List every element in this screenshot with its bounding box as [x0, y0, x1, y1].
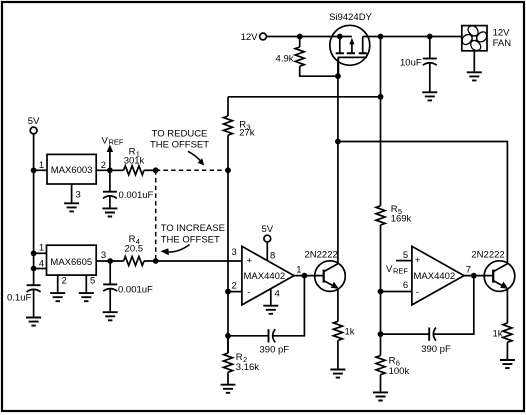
- wire MAX6605 pin1: [34, 243, 47, 254]
- svg-text:MAX4402: MAX4402: [414, 271, 456, 282]
- svg-text:1: 1: [39, 160, 44, 171]
- junction output node op-amp1: [302, 273, 308, 279]
- svg-text:12V: 12V: [493, 27, 511, 38]
- wire Q1 collector to gate line: [337, 58, 339, 264]
- ground 10uF: [422, 92, 437, 100]
- wire 12V to MOSFET source: [266, 36, 352, 38]
- junction MAX6605 pin3 node: [107, 258, 113, 264]
- wire cap to ground: [109, 289, 111, 312]
- wire Q2 emitter to 1k: [506, 288, 508, 323]
- wire drain node down to R5 rail: [380, 37, 382, 206]
- junction 12V / 4.9k: [297, 34, 303, 40]
- resistor R5 169k: [376, 204, 412, 225]
- resistor R2 3.16k: [224, 336, 260, 373]
- svg-text:MAX6003: MAX6003: [51, 165, 93, 176]
- svg-text:THE OFFSET: THE OFFSET: [150, 139, 209, 150]
- wire R2 to ground: [227, 372, 229, 385]
- annotation TO INCREASE THE OFFSET: [161, 223, 225, 255]
- wire R1 to offset node: [144, 169, 156, 171]
- ground R6: [373, 392, 388, 400]
- wire op-amp1 output to Q1 base: [294, 275, 324, 277]
- junction offset node A: [153, 167, 159, 173]
- svg-text:4: 4: [39, 259, 44, 270]
- wire op-amp1 pin4 to ground: [270, 289, 272, 306]
- junction inverting node / pin2: [225, 289, 231, 295]
- junction pin6 node: [378, 289, 384, 295]
- node 5V terminal: [28, 116, 40, 134]
- svg-text:4.9k: 4.9k: [276, 54, 294, 65]
- capacitor 0.1uF: [7, 285, 41, 303]
- wire feedback node to C 390pF: [228, 335, 269, 337]
- wire MAX6605 pin3 to R4: [96, 250, 123, 261]
- junction drain / top rail y97: [378, 94, 384, 100]
- resistor 1k (left): [333, 321, 354, 340]
- svg-text:1: 1: [39, 243, 44, 254]
- svg-text:3: 3: [232, 247, 237, 258]
- svg-text:V: V: [102, 135, 109, 146]
- IC MAX6605: [47, 245, 97, 275]
- capacitor 390 pF (right): [421, 328, 451, 356]
- svg-text:TO INCREASE: TO INCREASE: [161, 223, 225, 234]
- svg-text:3: 3: [101, 250, 106, 261]
- svg-text:2: 2: [101, 160, 106, 171]
- svg-text:20.5: 20.5: [125, 243, 144, 254]
- wire MAX6605 pin5 to ground: [86, 275, 95, 293]
- junction feedback node: [225, 333, 231, 339]
- wire 1k to ground: [506, 342, 508, 360]
- wire feedback node 2 to C 390pF: [381, 333, 430, 335]
- wire 4.9k to gate: [300, 66, 338, 76]
- junction drain node: [378, 34, 384, 40]
- svg-text:2: 2: [232, 281, 237, 292]
- wire R5 to pin6 node: [380, 225, 382, 292]
- ground R2: [221, 385, 236, 393]
- wire MAX6605 pin2 to ground: [58, 275, 67, 293]
- svg-text:FAN: FAN: [493, 38, 512, 49]
- svg-text:TO REDUCE: TO REDUCE: [152, 129, 208, 140]
- junction gate / 4.9k: [335, 73, 341, 79]
- svg-text:12V: 12V: [241, 32, 259, 43]
- junction feedback node 2: [378, 331, 384, 337]
- wire feedback node 2 to R6: [380, 334, 382, 355]
- wire 5V rail vertical: [33, 134, 35, 285]
- svg-text:REF: REF: [393, 267, 408, 276]
- node 12V terminal: [241, 32, 267, 43]
- svg-text:-: -: [247, 287, 250, 298]
- ground fan: [467, 72, 482, 80]
- wire R4 to op-amp pin3: [144, 260, 242, 262]
- transistor Q1 2N2222: [305, 249, 346, 291]
- resistor R6 100k: [376, 356, 409, 377]
- svg-text:1k: 1k: [345, 327, 355, 338]
- wire 0.1uF to ground: [33, 290, 35, 317]
- wire MAX6003 pin1: [34, 160, 47, 171]
- ground 1k (left): [330, 370, 345, 378]
- transistor U2 Si9424DY P-MOSFET: [329, 12, 372, 76]
- svg-text:5V: 5V: [261, 224, 273, 235]
- svg-text:100k: 100k: [389, 366, 410, 377]
- svg-text:Si9424DY: Si9424DY: [329, 12, 372, 23]
- junction node VREF: [107, 167, 113, 173]
- svg-text:10uF: 10uF: [400, 58, 422, 69]
- svg-text:4: 4: [275, 289, 280, 300]
- node VREF input op-amp2 pin5: [386, 261, 412, 276]
- wire MAX6003 pin3 to ground: [72, 184, 81, 203]
- capacitor 10uF: [400, 37, 437, 69]
- wire op-amp2 pin6: [381, 291, 412, 293]
- ground 1k (right): [500, 360, 515, 368]
- fan 12V FAN: [462, 26, 511, 51]
- svg-text:301k: 301k: [124, 156, 145, 167]
- junction dashed / R3 line: [225, 167, 231, 173]
- wire R6 to ground: [380, 375, 382, 393]
- wire MAX6003 pin2 to R1: [96, 160, 123, 171]
- svg-text:2N2222: 2N2222: [305, 249, 338, 260]
- svg-text:390 pF: 390 pF: [260, 345, 290, 356]
- junction 5V rail / MAX6605 pin4: [31, 266, 37, 272]
- svg-text:MAX6605: MAX6605: [50, 257, 92, 268]
- transistor Q2 2N2222: [471, 249, 514, 291]
- wire fan to ground: [473, 51, 475, 73]
- ground MAX6003 pin3: [64, 203, 79, 211]
- wire 1k to ground: [337, 341, 339, 370]
- wire MAX6605 pin4: [34, 259, 47, 270]
- wire top rail y97 (R3 to drain node): [228, 96, 381, 98]
- resistor 4.9k: [276, 37, 305, 67]
- wire Q1 emitter to 1k: [337, 288, 339, 321]
- resistor 1k (right): [493, 323, 512, 342]
- ground op-amp1 pin4: [263, 306, 278, 314]
- junction fan / 10uF: [427, 34, 433, 40]
- wire R3 to integrator node: [227, 135, 229, 353]
- svg-text:1: 1: [296, 265, 301, 276]
- svg-text:390 pF: 390 pF: [421, 344, 451, 355]
- svg-text:8: 8: [270, 251, 275, 262]
- ground MAX6605 pin2: [50, 293, 65, 301]
- wire gate line to Q2 collector: [338, 142, 508, 264]
- resistor R4 20.5: [124, 234, 144, 266]
- wire pin6 node to feedback node 2: [380, 292, 382, 335]
- wire C390 to output node: [273, 276, 304, 336]
- svg-text:0.001uF: 0.001uF: [118, 285, 153, 296]
- svg-text:169k: 169k: [391, 214, 412, 225]
- wire op-amp1 pin2: [228, 291, 242, 293]
- node VREF label with arrow: [102, 135, 124, 168]
- annotation TO REDUCE THE OFFSET: [150, 129, 209, 166]
- svg-text:MAX4402: MAX4402: [244, 271, 286, 282]
- junction output node op-amp2: [471, 273, 477, 279]
- svg-text:0.001uF: 0.001uF: [119, 190, 154, 201]
- svg-text:2N2222: 2N2222: [471, 249, 504, 260]
- wire dashed horizontal to R3 node: [156, 169, 228, 171]
- svg-text:+: +: [247, 256, 253, 267]
- junction 5V rail / MAX6003 pin1: [31, 167, 37, 173]
- IC MAX6003: [47, 154, 96, 184]
- capacitor 0.001uF (VREF): [103, 170, 154, 201]
- svg-text:3.16k: 3.16k: [236, 362, 259, 373]
- svg-text:-: -: [416, 287, 419, 298]
- op-amp U1 MAX4402 (left): [232, 246, 302, 305]
- svg-text:THE OFFSET: THE OFFSET: [161, 235, 220, 246]
- resistor R3 27k: [224, 97, 255, 139]
- capacitor 390 pF (left): [260, 329, 290, 355]
- svg-text:3: 3: [76, 190, 81, 201]
- ground 0.001uF (MAX6605): [103, 312, 118, 320]
- wire 10uF to ground: [429, 63, 431, 92]
- junction dashed / pin3 wire: [153, 258, 159, 264]
- wire op-amp2 output to Q2 base: [464, 275, 493, 277]
- svg-text:6: 6: [403, 280, 408, 291]
- svg-text:+: +: [415, 255, 421, 266]
- svg-text:2: 2: [62, 276, 67, 287]
- svg-text:5: 5: [403, 250, 408, 261]
- ground 0.1uF: [26, 318, 41, 326]
- op-amp U3 MAX4402 (right): [403, 246, 471, 305]
- wire C390 to output node 2: [434, 276, 474, 335]
- ground MAX6605 pin5: [79, 293, 94, 301]
- wire cap to ground: [109, 197, 111, 209]
- svg-text:27k: 27k: [239, 128, 255, 139]
- svg-text:7: 7: [466, 265, 471, 276]
- wire MOSFET drain to fan node: [363, 36, 462, 38]
- ground 0.001uF (VREF): [102, 208, 117, 216]
- junction gate / Q2 collector line: [335, 139, 341, 145]
- capacitor 0.001uF (MAX6605): [103, 261, 153, 296]
- svg-text:0.1uF: 0.1uF: [7, 293, 31, 304]
- svg-text:V: V: [386, 264, 393, 275]
- wire dashed vertical offset link: [155, 170, 157, 261]
- svg-text:1k: 1k: [493, 328, 503, 339]
- resistor R1 301k: [124, 147, 145, 175]
- node 5V supply op-amp1 pin8: [261, 224, 273, 261]
- svg-text:5: 5: [90, 276, 95, 287]
- junction 5V rail / MAX6605 pin1: [31, 250, 37, 256]
- svg-text:5V: 5V: [28, 116, 40, 127]
- svg-text:REF: REF: [109, 138, 124, 147]
